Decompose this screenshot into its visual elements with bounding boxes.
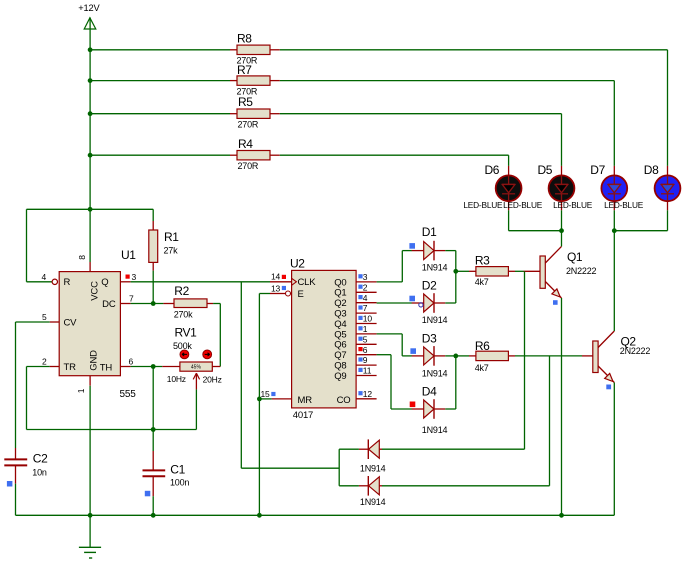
wire reset row (27, 208, 154, 210)
svg-text:R: R (64, 277, 71, 288)
svg-text:14: 14 (271, 272, 281, 282)
pin 14 CLK symbol (292, 278, 297, 285)
svg-text:VCC: VCC (90, 281, 101, 301)
svg-text:R7: R7 (237, 63, 252, 77)
svg-text:TH: TH (100, 363, 113, 374)
svg-text:2N2222: 2N2222 (566, 266, 597, 276)
svg-text:8: 8 (77, 255, 87, 260)
svg-text:Q2: Q2 (334, 298, 346, 309)
pin 14 CLK stub (270, 281, 292, 283)
svg-text:D1: D1 (422, 225, 437, 239)
node junction R1-DC (151, 301, 156, 306)
svg-text:7: 7 (129, 294, 134, 304)
node junction D5-D6-Q1C (559, 228, 564, 233)
wire upper feedback diode left (339, 448, 359, 450)
pin 8 VCC stub (89, 262, 91, 272)
svg-text:D2: D2 (422, 279, 437, 293)
svg-text:U1: U1 (121, 248, 136, 262)
svg-text:12: 12 (363, 389, 373, 399)
svg-text:Q7: Q7 (334, 350, 346, 361)
svg-text:1: 1 (76, 388, 86, 393)
pin 11 state square (358, 368, 362, 372)
wire Q2 base branch down (549, 356, 551, 486)
wire D5 cathode down (561, 210, 563, 230)
wire lower feedback diode left (339, 485, 359, 487)
wire R5 row right to D5 (280, 113, 562, 115)
Q1 state square (553, 300, 558, 305)
svg-text:R4: R4 (238, 137, 253, 151)
svg-text:C2: C2 (33, 452, 48, 466)
wire TR left (27, 366, 50, 368)
svg-text:CV: CV (64, 317, 78, 328)
D2 state square (409, 296, 415, 302)
pin 2 TR stub (50, 366, 60, 368)
wire R4 row left (90, 154, 230, 156)
node junction rail-reset (88, 207, 93, 212)
D1 state square (409, 243, 415, 249)
wire R7 row left (90, 80, 230, 82)
wire R3 to Q1 base (515, 270, 524, 272)
wire D8 cathode down (667, 210, 669, 230)
pin 5 Q6 stub (356, 343, 377, 345)
svg-text:DC: DC (102, 299, 116, 310)
wire Q1 base branch down (524, 271, 526, 449)
svg-text:LED-BLUE: LED-BLUE (463, 200, 503, 210)
power symbol +12V (84, 18, 96, 29)
node junction E-MR-bus (257, 513, 262, 518)
pin 1 state square (358, 326, 362, 330)
wire Q2 to D2 (377, 302, 412, 304)
node junction TH-C1 (151, 364, 156, 369)
svg-text:Q1: Q1 (567, 250, 583, 264)
pin 12 state square (358, 391, 362, 395)
node junction rail-R8 (88, 47, 93, 52)
wire DC row (131, 303, 164, 305)
wire R6 to Q2 base (515, 355, 582, 357)
wire +12V rail vertical (89, 18, 91, 263)
svg-text:1N914: 1N914 (360, 497, 386, 507)
svg-text:R6: R6 (475, 339, 490, 353)
svg-text:500k: 500k (173, 341, 192, 351)
node junction TR-C1 (151, 427, 156, 432)
svg-text:CLK: CLK (298, 277, 317, 288)
wire Q2 emitter down (613, 383, 615, 516)
svg-text:15: 15 (260, 389, 270, 399)
pin 11 Q9 stub (356, 375, 377, 377)
pin 13 E stub (270, 293, 286, 295)
svg-text:45%: 45% (191, 364, 202, 370)
pin 15 MR stub (272, 398, 292, 400)
pin 4 R bubble (52, 279, 57, 284)
RV1 wiper arrow (193, 373, 199, 379)
pin 6 TH stub (120, 366, 130, 368)
svg-text:R2: R2 (174, 284, 189, 298)
capacitor C2 (15, 448, 17, 459)
wire D6 cathode down (508, 210, 510, 230)
capacitor C1 (152, 367, 154, 452)
svg-text:+12V: +12V (78, 3, 100, 13)
pin 3 Q0 stub (356, 281, 377, 283)
C2 state square (7, 481, 12, 487)
svg-text:D6: D6 (485, 163, 500, 177)
svg-text:GND: GND (89, 350, 100, 371)
node junction D1-D2-R3 (453, 269, 458, 274)
pin 9 state square (358, 357, 362, 361)
transistor Q1 (524, 270, 541, 272)
resistor R8 (230, 49, 237, 51)
svg-text:3: 3 (132, 272, 137, 282)
svg-text:D8: D8 (644, 163, 659, 177)
svg-text:R8: R8 (237, 31, 252, 45)
node junction C1-bus (151, 513, 156, 518)
svg-text:1: 1 (363, 324, 368, 334)
counter U2 4017 body (292, 270, 357, 408)
svg-text:4k7: 4k7 (475, 277, 489, 287)
svg-text:1N914: 1N914 (422, 425, 448, 435)
node junction D7-D8-Q2C (612, 228, 617, 233)
pin 3 state square (358, 274, 362, 278)
wire Q5 to D3 (377, 333, 403, 335)
pin 5 state square (358, 337, 362, 341)
wire D1 cathode down (445, 250, 456, 252)
resistor R2 (163, 303, 174, 305)
svg-text:3: 3 (363, 272, 368, 282)
svg-text:7: 7 (363, 303, 368, 313)
pin 2 state square (358, 285, 362, 289)
svg-text:20Hz: 20Hz (203, 375, 222, 385)
svg-text:1N914: 1N914 (422, 368, 448, 378)
wire junction to R3 (456, 270, 469, 272)
wire Q7 to D4 (377, 354, 391, 356)
wire D3 cathode (445, 355, 456, 357)
pin 14 state square (282, 275, 286, 279)
node junction rail-R4 (88, 153, 93, 158)
node junction rail-R7 (88, 78, 93, 83)
node junction Q1E-bus (559, 513, 564, 518)
svg-text:10Hz: 10Hz (167, 374, 186, 384)
pin 15 state square (271, 392, 275, 396)
LED D8 (667, 166, 669, 176)
wire R8 row left (90, 49, 230, 51)
wire upper feedback diode right to Q1 base (382, 448, 525, 450)
pin 13 state square (282, 286, 286, 290)
svg-text:9: 9 (363, 355, 368, 365)
Q2 state square (606, 385, 611, 390)
wire R1 bottom to pin7 (152, 271, 154, 304)
diode D10 1N914 lower (359, 485, 368, 487)
svg-text:Q6: Q6 (334, 340, 346, 351)
pin 6 state square (358, 347, 362, 351)
pin 7 DC stub (120, 303, 130, 305)
diode D4 (412, 408, 424, 410)
svg-text:6: 6 (129, 357, 134, 367)
svg-text:270k: 270k (174, 310, 193, 320)
svg-text:R3: R3 (475, 254, 490, 268)
svg-text:D4: D4 (422, 385, 437, 399)
pin 3 state square (126, 275, 130, 279)
wire MR to vertical (259, 398, 271, 400)
svg-text:4017: 4017 (293, 410, 313, 421)
svg-text:2: 2 (42, 357, 47, 367)
pin 13 E bubble (286, 291, 291, 296)
svg-text:TR: TR (64, 362, 77, 373)
svg-text:D5: D5 (538, 163, 553, 177)
svg-text:LED-BLUE: LED-BLUE (503, 200, 543, 210)
wire junction to R6 (456, 355, 469, 357)
pin 6 Q7 stub (356, 354, 377, 356)
D4 state square (410, 402, 416, 408)
wire GND pin down (89, 386, 91, 516)
RV1 adjust wheel left (180, 350, 189, 359)
diode D2 (412, 302, 424, 304)
diode D3 (412, 355, 424, 357)
node junction rail-R5 (88, 111, 93, 116)
pin 12 CO stub (356, 398, 377, 400)
wire Q1 emitter down (561, 298, 563, 515)
node junction GND-bus (88, 513, 93, 518)
svg-text:Q4: Q4 (334, 319, 346, 330)
wire TR bottom row (27, 429, 197, 431)
wire ground bus (16, 514, 615, 516)
resistor R3 (469, 270, 476, 272)
svg-text:CO: CO (337, 395, 351, 406)
svg-text:11: 11 (363, 366, 372, 376)
svg-text:D7: D7 (590, 163, 605, 177)
svg-text:Q1: Q1 (334, 288, 346, 299)
svg-text:R1: R1 (164, 230, 179, 244)
svg-text:10n: 10n (32, 467, 47, 477)
svg-text:Q9: Q9 (334, 371, 346, 382)
wire R4 row right to D6 (280, 154, 509, 156)
wire CV to C2 (16, 321, 50, 323)
resistor R5 (230, 113, 237, 115)
pin 7 Q3 stub (356, 312, 377, 314)
svg-text:Q0: Q0 (334, 277, 346, 288)
svg-text:Q8: Q8 (334, 361, 346, 372)
svg-text:LED-BLUE: LED-BLUE (553, 200, 593, 210)
LED D6 (508, 166, 510, 176)
wire C2 to ground bus (15, 484, 17, 516)
wire E pin down to bus (259, 293, 270, 295)
svg-text:D3: D3 (422, 332, 437, 346)
svg-text:2: 2 (363, 282, 368, 292)
resistor R6 (469, 355, 476, 357)
ground symbol (89, 515, 91, 547)
pin 5 CV stub (50, 321, 60, 323)
diode D9 1N914 upper (359, 448, 368, 450)
pin 1 Q5 stub (356, 333, 377, 335)
svg-text:R5: R5 (238, 95, 253, 109)
svg-text:270R: 270R (238, 119, 259, 129)
svg-text:5: 5 (363, 334, 368, 344)
pin 4 state square (358, 295, 362, 299)
wire bottom diodes cathode link (338, 449, 340, 486)
svg-text:1N914: 1N914 (422, 262, 448, 272)
D3 state square (410, 348, 416, 354)
resistor R1 (152, 209, 154, 221)
svg-text:4k7: 4k7 (475, 363, 489, 373)
D2 anode marker circle (419, 303, 423, 307)
potentiometer RV1 (162, 366, 180, 368)
svg-text:LED-BLUE: LED-BLUE (604, 200, 644, 210)
LED D5 (561, 166, 563, 176)
wire R7 row right to D7 (280, 80, 615, 82)
wire R8 row right to D8 (280, 49, 668, 51)
pin 10 Q4 stub (356, 323, 377, 325)
wire CLK branch bottom (241, 467, 339, 469)
pin 9 Q8 stub (356, 364, 377, 366)
svg-text:10: 10 (363, 314, 373, 324)
svg-text:2N2222: 2N2222 (620, 346, 651, 356)
svg-text:555: 555 (120, 389, 137, 400)
node junction E-MR (257, 397, 262, 402)
pin 2 Q1 stub (356, 291, 377, 293)
pin 10 state square (358, 316, 362, 320)
wire lower feedback diode right to Q2 base (382, 485, 550, 487)
svg-text:6: 6 (363, 345, 368, 355)
op-amp U1 555 body (59, 272, 120, 376)
svg-text:1N914: 1N914 (422, 315, 448, 325)
svg-text:C1: C1 (170, 463, 185, 477)
wire Q output row (131, 281, 270, 283)
svg-text:RV1: RV1 (175, 326, 198, 340)
wire RV1 wiper down (195, 389, 197, 429)
svg-text:Q5: Q5 (334, 329, 346, 340)
wire R2 right to pot (213, 303, 220, 305)
svg-text:E: E (298, 289, 304, 300)
svg-text:4: 4 (363, 293, 368, 303)
transistor Q2 (582, 355, 593, 357)
diode D1 (412, 250, 424, 252)
pin 3 Q stub (120, 281, 130, 283)
pin 7 state square (358, 305, 362, 309)
wire Q0 to D1 (377, 281, 403, 283)
wire D4 cathode up (445, 408, 456, 410)
node junction D3-D4-R6 (453, 354, 458, 359)
pin 1 GND stub (89, 376, 91, 386)
svg-text:100n: 100n (170, 477, 189, 487)
svg-text:Q: Q (101, 277, 108, 288)
wire R5 row left (90, 113, 230, 115)
RV1 adjust wheel right (203, 350, 212, 359)
svg-text:27k: 27k (164, 245, 179, 255)
resistor R4 (230, 154, 237, 156)
svg-text:MR: MR (298, 395, 313, 406)
wire D7 cathode down (613, 210, 615, 230)
svg-text:4: 4 (41, 272, 46, 282)
svg-text:5: 5 (42, 312, 47, 322)
wire D2 cathode up (445, 302, 456, 304)
svg-text:13: 13 (271, 283, 281, 293)
wire TH row (131, 366, 163, 368)
svg-text:270R: 270R (238, 161, 259, 171)
LED D7 (613, 166, 615, 176)
pin 4 Q2 stub (356, 302, 377, 304)
svg-text:U2: U2 (290, 257, 305, 271)
C1 state square (145, 491, 151, 497)
svg-text:Q3: Q3 (334, 309, 346, 320)
svg-text:1N914: 1N914 (360, 464, 386, 474)
wire CLK branch down (240, 282, 242, 468)
resistor R7 (230, 80, 237, 82)
